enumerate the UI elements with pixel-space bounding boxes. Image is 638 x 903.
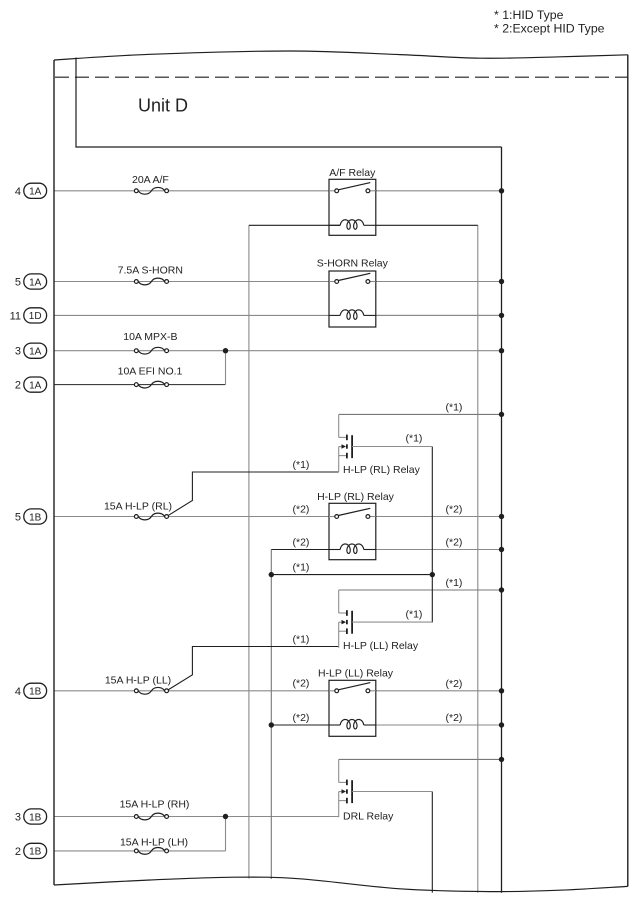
svg-text:1B: 1B bbox=[29, 687, 42, 698]
svg-text:1A: 1A bbox=[29, 277, 42, 288]
svg-text:(*2): (*2) bbox=[446, 504, 463, 516]
svg-text:(*1): (*1) bbox=[446, 402, 463, 414]
svg-text:S-HORN Relay: S-HORN Relay bbox=[317, 258, 389, 270]
svg-text:(*1): (*1) bbox=[293, 459, 310, 471]
svg-text:5: 5 bbox=[15, 512, 21, 524]
svg-text:* 1:HID Type: * 1:HID Type bbox=[494, 8, 564, 22]
svg-text:2: 2 bbox=[15, 846, 21, 858]
svg-text:1B: 1B bbox=[29, 812, 42, 823]
svg-text:15A H-LP (LL): 15A H-LP (LL) bbox=[105, 675, 171, 687]
svg-text:(*1): (*1) bbox=[293, 633, 310, 645]
svg-text:* 2:Except HID Type: * 2:Except HID Type bbox=[494, 22, 605, 36]
svg-text:(*1): (*1) bbox=[293, 561, 310, 573]
svg-text:7.5A S-HORN: 7.5A S-HORN bbox=[118, 265, 183, 277]
svg-text:(*2): (*2) bbox=[293, 712, 310, 724]
svg-text:11: 11 bbox=[10, 310, 21, 322]
svg-text:1B: 1B bbox=[29, 847, 42, 858]
svg-text:15A H-LP (LH): 15A H-LP (LH) bbox=[120, 837, 188, 849]
svg-text:A/F Relay: A/F Relay bbox=[329, 167, 376, 179]
svg-text:(*1): (*1) bbox=[406, 609, 423, 621]
svg-text:1B: 1B bbox=[29, 512, 42, 523]
svg-text:(*2): (*2) bbox=[293, 678, 310, 690]
svg-text:1A: 1A bbox=[29, 347, 42, 358]
svg-text:(*2): (*2) bbox=[293, 503, 310, 515]
svg-text:(*2): (*2) bbox=[446, 678, 463, 690]
svg-text:3: 3 bbox=[15, 346, 21, 358]
svg-text:10A MPX-B: 10A MPX-B bbox=[123, 331, 177, 343]
svg-text:Unit D: Unit D bbox=[138, 96, 188, 116]
svg-text:4: 4 bbox=[15, 686, 21, 698]
svg-text:2: 2 bbox=[15, 380, 21, 392]
svg-text:(*1): (*1) bbox=[406, 433, 423, 445]
svg-text:4: 4 bbox=[15, 186, 21, 198]
svg-text:15A H-LP (RH): 15A H-LP (RH) bbox=[120, 799, 190, 811]
svg-text:3: 3 bbox=[15, 812, 21, 824]
svg-text:H-LP (RL) Relay: H-LP (RL) Relay bbox=[343, 464, 421, 476]
svg-text:1D: 1D bbox=[29, 311, 42, 322]
svg-text:20A A/F: 20A A/F bbox=[132, 174, 169, 186]
svg-text:15A H-LP (RL): 15A H-LP (RL) bbox=[104, 501, 172, 513]
svg-text:H-LP (LL) Relay: H-LP (LL) Relay bbox=[343, 640, 419, 652]
svg-text:(*1): (*1) bbox=[446, 577, 463, 589]
svg-text:H-LP (RL) Relay: H-LP (RL) Relay bbox=[317, 491, 395, 503]
svg-text:1A: 1A bbox=[29, 187, 42, 198]
svg-text:5: 5 bbox=[15, 277, 21, 289]
svg-text:H-LP (LL) Relay: H-LP (LL) Relay bbox=[318, 667, 394, 679]
svg-text:1A: 1A bbox=[29, 380, 42, 391]
svg-text:(*2): (*2) bbox=[293, 536, 310, 548]
svg-text:(*2): (*2) bbox=[446, 537, 463, 549]
svg-text:(*2): (*2) bbox=[446, 712, 463, 724]
svg-text:10A EFI NO.1: 10A EFI NO.1 bbox=[118, 366, 183, 378]
svg-text:DRL Relay: DRL Relay bbox=[343, 811, 394, 823]
